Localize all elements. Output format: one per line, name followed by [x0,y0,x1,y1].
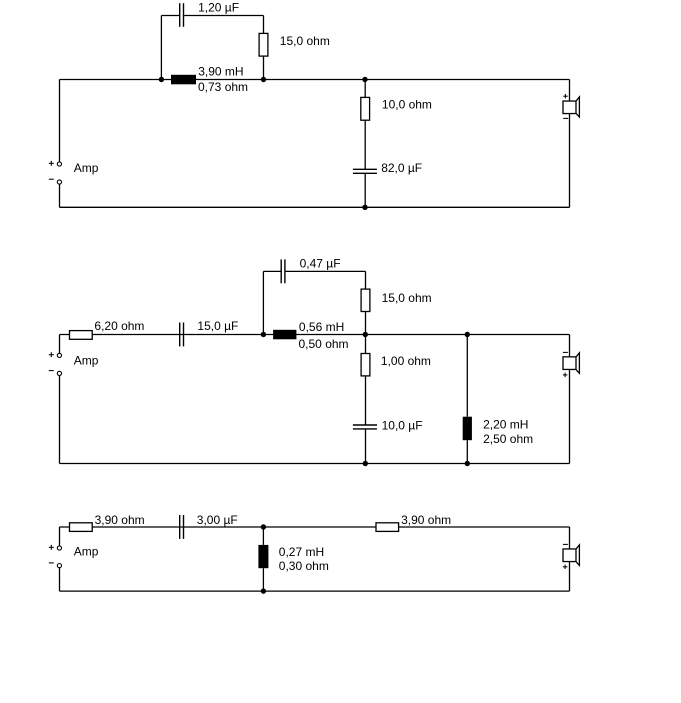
svg-text:0,73 ohm: 0,73 ohm [198,80,248,94]
svg-text:3,00 µF: 3,00 µF [197,513,238,527]
svg-text:82,0 µF: 82,0 µF [381,161,422,175]
svg-text:Amp: Amp [74,353,99,367]
svg-text:0,27 mH: 0,27 mH [279,545,324,559]
svg-text:Amp: Amp [74,161,99,175]
svg-text:3,90 ohm: 3,90 ohm [401,513,451,527]
svg-text:1,00 ohm: 1,00 ohm [381,354,431,368]
svg-text:15,0 ohm: 15,0 ohm [280,34,330,48]
svg-text:0,30 ohm: 0,30 ohm [279,559,329,573]
svg-text:10,0 ohm: 10,0 ohm [382,97,432,111]
svg-text:6,20 ohm: 6,20 ohm [94,319,144,333]
svg-text:0,50 ohm: 0,50 ohm [299,337,349,351]
svg-text:0,47 µF: 0,47 µF [300,256,341,270]
svg-text:15,0 µF: 15,0 µF [197,319,238,333]
svg-text:3,90 mH: 3,90 mH [198,64,243,78]
svg-text:3,90 ohm: 3,90 ohm [95,513,145,527]
svg-text:Amp: Amp [74,545,99,559]
svg-text:10,0 µF: 10,0 µF [382,419,423,433]
svg-text:2,50 ohm: 2,50 ohm [483,432,533,446]
svg-text:15,0 ohm: 15,0 ohm [382,291,432,305]
svg-text:2,20 mH: 2,20 mH [483,418,528,432]
svg-text:1,20 µF: 1,20 µF [198,0,239,14]
svg-text:0,56 mH: 0,56 mH [299,320,344,334]
